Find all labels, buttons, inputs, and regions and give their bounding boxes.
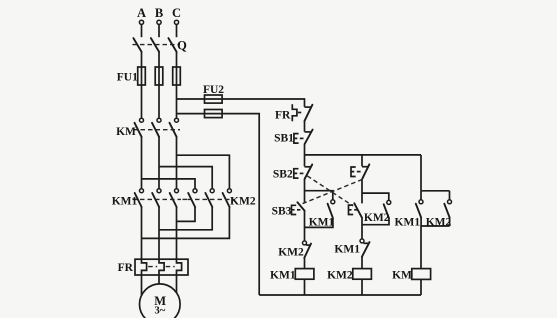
wire KM2 pole1 output crossover to line C <box>177 207 196 221</box>
contact KM2 NO (branch 4) <box>444 191 451 218</box>
svg-text:C: C <box>172 6 181 20</box>
svg-text:KM1: KM1 <box>334 243 360 255</box>
linkage SB2 (dashed interlock line) <box>307 176 353 206</box>
wire SB2-NC to KM1 interlock <box>361 218 363 239</box>
contactor KM1 linkage (dashed) <box>133 198 182 200</box>
contactor KM main contact 2 <box>152 118 161 137</box>
contactor KM1 main contact 1 <box>135 189 144 207</box>
wire self-hold branch KM2 (top) <box>362 193 389 200</box>
wire bottom rail <box>259 294 421 296</box>
wire control rail top (phase C to FR contact) <box>177 99 305 107</box>
wire C switch to FU1 <box>176 52 178 67</box>
wire branch3 feed <box>420 155 422 191</box>
contact KM1 interlock (NC) in branch 2 <box>360 239 370 257</box>
svg-text:KM1: KM1 <box>270 270 296 282</box>
wire FR contact to SB1 <box>304 121 306 132</box>
switch Q pole 2 blade <box>151 38 159 52</box>
wire self-hold branch KM1 (top) <box>305 191 333 200</box>
contactor KM linkage (dashed) <box>133 129 180 131</box>
FR heater element 2 <box>159 259 164 275</box>
wire SB3-NO to SB2-NC (branch 2) <box>361 179 363 204</box>
svg-text:KM: KM <box>392 270 412 282</box>
svg-text:FU1: FU1 <box>117 72 138 84</box>
svg-text:KM2: KM2 <box>364 212 390 224</box>
contactor KM1 main contact 2 <box>152 189 161 207</box>
wire A KM to KM1 contact <box>141 137 143 189</box>
wire coil KM2 to bottom rail <box>361 279 363 295</box>
motor M circle <box>140 284 181 318</box>
contactor KM main contact 1 <box>135 118 144 137</box>
svg-text:3~: 3~ <box>154 306 165 317</box>
wire KM1 interlock to coil KM2 <box>361 257 363 269</box>
svg-text:KM2: KM2 <box>230 196 256 208</box>
pushbutton SB3 NO contact (branch 2) <box>351 164 369 179</box>
wire B KM1 to FR heater <box>158 207 160 259</box>
contactor KM2 linkage (dashed) <box>188 198 235 200</box>
terminal A circle <box>139 20 143 24</box>
wire SB1 to junction rail <box>304 144 306 155</box>
contactor KM2 main contact 3 <box>223 189 232 207</box>
fuse FU1 pole 1 <box>138 67 146 85</box>
wire control return (phase line to left rail) <box>177 114 260 295</box>
wire SB2 to SB3 (branch 1) <box>304 179 306 203</box>
switch Q pole 1 blade <box>133 38 141 52</box>
wire C terminal to switch Q <box>176 24 178 37</box>
fuse FU1 pole 3 <box>173 67 181 85</box>
coil KM <box>412 269 431 280</box>
wire B switch to FU1 <box>158 52 160 67</box>
contactor KM2 main contact 1 <box>188 189 197 207</box>
linkage SB3 (dashed interlock line) <box>299 179 362 205</box>
wire B FR to motor <box>158 275 160 284</box>
fuse FU1 pole 2 <box>155 67 163 85</box>
svg-text:KM: KM <box>116 126 136 138</box>
svg-text:FR: FR <box>118 262 134 274</box>
svg-text:KM2: KM2 <box>426 217 452 229</box>
svg-text:SB2: SB2 <box>273 168 293 180</box>
wire branch3/4 top join <box>421 190 450 192</box>
relay FR NC contact (control) <box>292 104 312 121</box>
svg-text:SB1: SB1 <box>274 133 294 145</box>
wire A switch to FU1 <box>141 52 143 67</box>
wire A FU1 to KM contact <box>141 85 143 118</box>
pushbutton SB2 (start fwd, contact in branch 1) <box>294 165 312 180</box>
wire coil KM to bottom rail <box>420 279 422 295</box>
wire C FR to motor <box>176 275 178 293</box>
wire KM2 pole3 output crossover to line A <box>142 207 230 238</box>
contact KM1 NO (branch 3) <box>416 191 423 218</box>
wire self-hold branch KM1 (bottom) <box>305 218 333 227</box>
thermal relay FR box <box>135 259 188 275</box>
wire C FU1 to KM contact <box>176 85 178 118</box>
svg-text:Q: Q <box>177 39 187 53</box>
switch Q pole 3 blade <box>168 38 176 52</box>
wire coil KM1 to bottom rail <box>304 279 306 295</box>
wire B FU1 to KM contact <box>158 85 160 118</box>
contact KM1 self-holding (NO) <box>328 200 335 218</box>
wire C KM to KM1 contact <box>176 137 178 189</box>
FR heater linkage dashes <box>148 266 175 268</box>
wire KM2 interlock to coil KM1 <box>304 258 306 269</box>
svg-text:KM1: KM1 <box>309 217 335 229</box>
wire tap B to KM2 pole 2 <box>159 167 212 189</box>
pushbutton SB3 contact in branch 1 <box>292 202 305 214</box>
fuse FU2 upper <box>205 95 223 103</box>
contactor KM1-KM2 linkage continuation (dashed) <box>183 198 188 200</box>
fuse FU2 lower <box>205 110 223 118</box>
wire self-hold branch KM2 (bottom) <box>362 218 389 224</box>
wire branch3 to coil KM <box>420 226 422 269</box>
FR heater element 3 <box>177 259 182 275</box>
svg-text:KM1: KM1 <box>112 196 138 208</box>
switch Q linkage (dashed) <box>133 44 181 46</box>
wire C KM1 to FR heater <box>176 207 178 259</box>
wire branch1 junction to SB2 <box>304 155 306 167</box>
svg-text:KM2: KM2 <box>278 247 304 259</box>
terminal B circle <box>157 20 161 24</box>
pushbutton SB1 (stop, NC) <box>294 130 313 145</box>
wire B terminal to switch Q <box>158 24 160 37</box>
contactor KM1 main contact 3 <box>170 189 179 207</box>
coil KM2 <box>353 269 372 280</box>
svg-text:FR: FR <box>275 110 291 122</box>
wire B KM to KM1 contact <box>158 137 160 189</box>
contact KM2 self-holding (NO) <box>384 200 391 218</box>
terminal C circle <box>174 20 178 24</box>
svg-text:SB3: SB3 <box>272 206 292 218</box>
wire junction rail below SB1 <box>305 154 422 156</box>
svg-text:KM2: KM2 <box>327 270 353 282</box>
wire A KM1 to FR heater <box>141 207 143 259</box>
wire tap A to KM2 pole 1 <box>142 179 196 189</box>
FR heater element 1 <box>142 259 147 275</box>
contactor KM main contact 3 <box>170 118 179 137</box>
coil KM1 <box>295 269 314 280</box>
pushbutton SB2 NC contact (branch 2) <box>349 203 363 218</box>
contactor KM2 main contact 2 <box>205 189 214 207</box>
svg-text:B: B <box>155 6 163 20</box>
svg-text:KM1: KM1 <box>395 217 421 229</box>
wire A FR to motor <box>141 275 143 295</box>
wire KM2 pole2 output crossover to line B <box>159 207 212 230</box>
wire SB3 to KM2 interlock <box>304 211 306 241</box>
wire A terminal to switch Q <box>141 24 143 37</box>
svg-text:A: A <box>137 6 146 20</box>
contact KM2 interlock (NC) in branch 1 <box>303 241 312 258</box>
wire tap C to KM2 pole 3 <box>177 155 230 189</box>
svg-text:FU2: FU2 <box>203 84 224 96</box>
wire branch2 junction to SB3-NO <box>361 155 363 166</box>
wire branch3/4 bottom join <box>421 218 450 227</box>
